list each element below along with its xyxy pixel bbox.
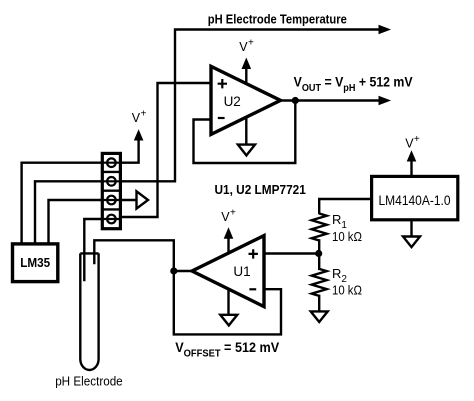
terminal screw slot 4 [102,218,120,220]
resistor R1 [312,214,327,241]
arrowhead V+ U1 [224,227,234,239]
wire node to R2 top [318,254,320,269]
wire U1 noninverting input to divider node [264,252,319,254]
ground U1 [220,315,237,326]
op-amp U2 minus sign [218,117,225,119]
guard arrow terminal 3 [137,191,149,208]
op-amp U1 [192,236,264,307]
wire U1 V+ stub [227,240,229,253]
svg-text:V+: V+ [405,134,420,151]
terminal screw slot 2 [102,180,120,182]
node U1 output [170,267,177,274]
wire LM4140 output to R1 [319,199,371,213]
svg-text:VOUT = VpH + 512 mV: VOUT = VpH + 512 mV [294,75,413,95]
svg-text:pH Electrode: pH Electrode [55,373,123,388]
op-amp U2 [211,66,281,134]
terminal screw 4 [107,215,116,224]
terminal block divider 2 [102,189,120,191]
svg-text:V+: V+ [221,208,236,225]
op-amp U1 plus sign [249,249,258,258]
terminal block divider 3 [102,208,120,210]
arrowhead temperature output [379,25,392,35]
node divider R1 R2 [315,250,322,257]
svg-text:V+: V+ [132,109,147,126]
wire terminal 1 to V+ arrow [121,141,139,163]
wire temperature output (terminal 2 to top arrow) [121,30,379,182]
wire U1 output node to pH electrode reference [94,240,174,271]
svg-text:U1: U1 [233,264,250,279]
wire terminal 3 to guard arrow [121,199,137,201]
svg-text:U1, U2 LMP7721: U1, U2 LMP7721 [215,182,306,197]
svg-text:LM35: LM35 [20,255,50,270]
terminal screw 2 [107,177,116,186]
wire LM4140 ground stub [410,220,412,237]
svg-text:U2: U2 [224,94,241,109]
wire U1 ground stub [227,289,229,315]
wire U1 output to node [174,270,192,272]
arrowhead V+ U2 [242,58,252,70]
ground R2 [311,311,328,322]
terminal block divider 1 [102,171,120,173]
wire U2 V+ stub [245,70,247,82]
LM4140 box [372,176,458,219]
svg-text:VOFFSET = 512 mV: VOFFSET = 512 mV [175,340,279,360]
wire LM35 pin3 to terminal 3 [49,200,103,244]
arrowhead V+ terminal block [134,129,144,140]
svg-text:10 kΩ: 10 kΩ [332,230,362,244]
arrowhead U2 output [379,96,392,106]
pH electrode tube [80,253,98,370]
wire R2 bottom to ground [318,296,320,311]
terminal block connector [102,153,120,228]
svg-text:pH Electrode Temperature: pH Electrode Temperature [208,13,347,27]
wire LM35 pin2 to terminal 2 [35,181,102,244]
svg-text:LM4140A-1.0: LM4140A-1.0 [379,193,451,208]
wire LM4140 V+ stub [410,162,412,176]
svg-text:R2: R2 [332,266,347,285]
wire U2 ground stub [245,119,247,144]
resistor R2 [312,269,327,296]
op-amp U1 minus sign [249,288,256,290]
op-amp U2 plus sign [218,79,227,88]
ground U2 [238,145,255,156]
wire terminal 4 to U2 noninverting input [121,83,212,217]
wire R1 bottom to node [318,240,320,253]
ground LM4140 [403,237,420,248]
wire LM35 pin1 to terminal 1 [22,163,103,244]
wire U1 inverting input feedback loop [174,271,281,334]
terminal screw 3 [107,196,116,205]
terminal screw slot 3 [102,199,120,201]
arrowhead V+ LM4140 [407,150,417,161]
wire U2 output to arrow [281,99,379,101]
terminal screw 1 [107,158,116,167]
terminal screw slot 1 [102,162,120,164]
LM35 box [13,244,58,282]
node U2 output [292,97,299,104]
wire terminal 4 to pH electrode inner element [84,219,102,280]
svg-text:R1: R1 [332,212,347,231]
svg-text:V+: V+ [239,38,254,55]
wire U2 inverting input feedback loop [194,101,296,164]
svg-text:10 kΩ: 10 kΩ [332,284,362,298]
